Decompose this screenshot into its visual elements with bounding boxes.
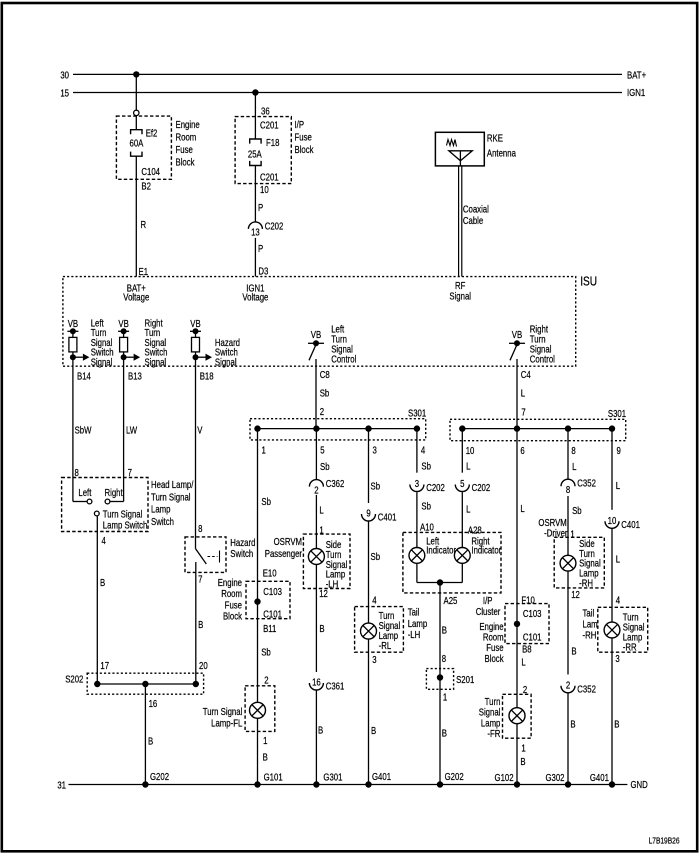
wire B from S202 pin 16 to ground G202: [144, 684, 146, 785]
svg-text:-RL: -RL: [379, 640, 392, 651]
I/P Fuse Block box (F18): [235, 117, 291, 184]
svg-text:R: R: [141, 219, 147, 230]
svg-text:8: 8: [442, 653, 446, 664]
svg-text:7: 7: [128, 467, 132, 478]
svg-text:VB: VB: [118, 318, 128, 329]
Turn Signal Lamp-RR box in Tail Lamp-RH: [598, 607, 648, 652]
svg-text:8: 8: [571, 445, 575, 456]
svg-text:25A: 25A: [248, 148, 262, 159]
svg-text:B11: B11: [263, 623, 276, 634]
antenna RF squiggle symbol: [447, 140, 457, 147]
svg-text:C202: C202: [426, 482, 445, 493]
splice S202 bus wire: [97, 683, 196, 685]
svg-text:C202: C202: [472, 482, 491, 493]
svg-text:L: L: [572, 461, 576, 472]
wire from line 30 to fuse block terminal: [135, 74, 137, 110]
svg-text:2: 2: [314, 484, 318, 495]
junction at S301 pin 5: [313, 425, 319, 431]
common contact of turn signal lamp switch: [94, 511, 99, 516]
svg-text:G301: G301: [323, 771, 342, 782]
svg-text:B: B: [263, 752, 268, 763]
svg-text:I/P: I/P: [295, 119, 305, 130]
svg-text:Sb: Sb: [371, 551, 381, 562]
svg-text:3: 3: [615, 653, 619, 664]
wire P from fuse block to connector C202: [254, 166, 256, 222]
svg-text:G102: G102: [495, 772, 514, 783]
svg-text:4: 4: [421, 445, 425, 456]
connector C202 pin 3: [410, 485, 424, 492]
svg-text:GND: GND: [631, 779, 649, 790]
svg-text:B: B: [442, 727, 447, 738]
svg-text:10: 10: [260, 184, 269, 195]
svg-text:4: 4: [102, 535, 106, 546]
svg-text:Sb: Sb: [371, 480, 381, 491]
wire LW from ISU pin B13 to headlamp switch pin 7: [123, 357, 125, 501]
svg-text:L: L: [616, 480, 620, 491]
svg-text:B: B: [148, 736, 153, 747]
wire B from lamp pin 1 to ground G102: [516, 724, 518, 785]
svg-text:B: B: [198, 619, 203, 630]
svg-text:Tail: Tail: [583, 608, 595, 619]
svg-text:ISU: ISU: [580, 274, 597, 288]
wire L from S301 pin 6 to I/P fuse block pin F10: [516, 429, 518, 624]
lamp Right Indicator: [454, 548, 470, 564]
svg-text:-FR: -FR: [487, 728, 500, 739]
junction at S301 pin 6: [514, 425, 520, 431]
svg-text:Left: Left: [78, 487, 91, 498]
svg-text:L: L: [466, 461, 470, 472]
svg-text:10: 10: [466, 445, 475, 456]
svg-text:7: 7: [198, 573, 202, 584]
svg-text:C401: C401: [378, 512, 397, 523]
svg-text:-RH: -RH: [583, 630, 597, 641]
svg-text:Cable: Cable: [463, 215, 483, 226]
svg-text:B14: B14: [77, 371, 91, 382]
svg-text:15: 15: [60, 88, 69, 99]
svg-text:Engine: Engine: [479, 621, 503, 632]
wire L from ISU pin C4 to splice S301 pin 7: [516, 359, 518, 429]
connector C401 pin 10: [605, 521, 619, 528]
wire B from OSRVM pin 12 to connector C361: [315, 565, 317, 673]
svg-text:C101: C101: [263, 609, 282, 620]
wire B from cluster pin A25 to splice S201 pin 8: [439, 583, 441, 678]
wire Sb from S301 pin 4 to connector C202: [416, 429, 418, 473]
svg-text:L: L: [520, 503, 524, 514]
svg-text:RKE: RKE: [487, 132, 503, 143]
svg-text:Signal: Signal: [91, 357, 113, 368]
svg-text:P: P: [258, 202, 263, 213]
lamp Turn Signal Lamp-FR: [509, 708, 525, 724]
svg-text:Switch: Switch: [230, 548, 253, 559]
svg-text:C101: C101: [523, 632, 542, 643]
svg-text:VB: VB: [68, 318, 78, 329]
svg-text:C362: C362: [326, 478, 345, 489]
svg-text:A28: A28: [468, 525, 482, 536]
lamp Turn Signal Lamp-RR: [604, 622, 620, 638]
junction at S301 pin 4: [414, 425, 420, 431]
svg-text:Lamp Switch: Lamp Switch: [103, 520, 148, 531]
svg-text:Signal: Signal: [215, 357, 237, 368]
svg-text:F18: F18: [266, 137, 279, 148]
svg-text:-RH: -RH: [579, 578, 593, 589]
bus line 30 BAT+: [73, 73, 622, 75]
svg-text:Signal: Signal: [145, 357, 167, 368]
svg-text:BAT+: BAT+: [627, 69, 646, 80]
svg-text:8: 8: [75, 467, 79, 478]
wire SbW from ISU pin B14 to headlamp switch pin 8: [72, 357, 74, 501]
svg-text:V: V: [197, 425, 202, 436]
wire from line 15 into I/P Fuse Block: [254, 93, 256, 140]
svg-text:OSRVM: OSRVM: [274, 536, 302, 547]
svg-text:Lamp: Lamp: [408, 618, 427, 629]
svg-text:Tail: Tail: [408, 607, 420, 618]
svg-text:2: 2: [320, 406, 324, 417]
svg-text:L: L: [466, 504, 470, 515]
svg-text:I/P: I/P: [483, 595, 493, 606]
svg-text:Block: Block: [223, 611, 242, 622]
svg-text:Signal: Signal: [479, 707, 501, 718]
OSRVM Passenger side turn signal lamp box: [303, 534, 350, 588]
svg-text:B: B: [100, 577, 105, 588]
connector C352 pin 2: [561, 686, 575, 693]
left contact of turn signal lamp switch: [73, 501, 87, 503]
svg-text:C201: C201: [260, 120, 279, 131]
fuse F18 25A: [250, 139, 261, 166]
svg-text:20: 20: [199, 660, 208, 671]
svg-text:13: 13: [251, 227, 260, 238]
ISU pull-up sensing unit for Right Turn Signal Switch Signal: [118, 318, 140, 361]
svg-text:17: 17: [100, 660, 109, 671]
svg-text:31: 31: [57, 779, 66, 790]
junction inside fuse block right: [514, 621, 520, 627]
svg-text:LW: LW: [126, 425, 138, 436]
wire L from S301 pin 8 to connector C352: [567, 429, 569, 480]
svg-text:-Driver: -Driver: [544, 528, 567, 539]
svg-text:3: 3: [372, 654, 376, 665]
svg-text:Lamp-FL: Lamp-FL: [211, 717, 242, 728]
wire L from C401 to lamp pin 4: [611, 528, 613, 622]
splice S202 box: [87, 673, 203, 694]
svg-text:SbW: SbW: [75, 425, 92, 436]
svg-text:Fuse: Fuse: [486, 642, 503, 653]
svg-text:C104: C104: [141, 166, 160, 177]
svg-text:L: L: [521, 388, 525, 399]
connector C401 pin 9: [362, 514, 376, 521]
svg-text:Antenna: Antenna: [487, 147, 516, 158]
wire L from C202 to cluster pin A28: [461, 492, 463, 547]
svg-text:P: P: [258, 243, 263, 254]
right contact of turn signal lamp switch: [111, 501, 124, 503]
lamp Side Turn Signal Lamp-LH: [308, 549, 324, 565]
wire L from fuse block pin B8 to lamp pin 2: [516, 624, 518, 708]
svg-text:OSRVM: OSRVM: [538, 517, 566, 528]
svg-text:C103: C103: [263, 586, 282, 597]
junction S202 pin 16: [142, 681, 148, 687]
svg-text:B: B: [442, 625, 447, 636]
svg-text:VB: VB: [311, 329, 321, 340]
wire B from hazard switch pin 7 to splice S202 pin 20: [195, 562, 197, 684]
wire from Left Indicator to junction: [416, 563, 418, 582]
svg-text:8: 8: [198, 523, 202, 534]
svg-text:IGN1: IGN1: [627, 87, 645, 98]
svg-text:Cluster: Cluster: [476, 606, 501, 617]
svg-text:L: L: [319, 505, 323, 516]
svg-text:S301: S301: [408, 407, 426, 418]
svg-text:Room: Room: [176, 131, 197, 142]
lamp Turn Signal Lamp-FL: [250, 702, 266, 718]
I/P Cluster box with indicators: [403, 532, 501, 593]
connector C202 pin 13: [248, 222, 262, 229]
antenna triangle symbol: [449, 151, 473, 166]
svg-text:60A: 60A: [130, 137, 144, 148]
svg-text:Switch: Switch: [151, 516, 174, 527]
ISU output switch for Right Turn Signal Control: [509, 329, 525, 360]
svg-text:3: 3: [415, 478, 419, 489]
svg-text:L7B19B26: L7B19B26: [649, 836, 680, 846]
splice S301 right box: [450, 419, 626, 440]
wire Sb from S301 pin 5 to connector C362: [315, 429, 317, 480]
node on line 15 at F18 feed: [252, 89, 258, 95]
svg-text:G202: G202: [150, 771, 169, 782]
wire B from OSRVM pin 12 to connector C352 pin 2: [567, 571, 569, 674]
svg-text:Voltage: Voltage: [242, 291, 268, 302]
svg-text:Block: Block: [176, 156, 195, 167]
wire L from S301 pin 9 to connector C401: [611, 429, 613, 510]
lamp Side Turn Signal Lamp-RH: [560, 555, 576, 571]
svg-text:E10: E10: [263, 568, 277, 579]
svg-text:B: B: [319, 623, 324, 634]
wire B from C352 to ground G302: [567, 693, 569, 785]
svg-text:Engine: Engine: [176, 119, 200, 130]
wire L from C362 to OSRVM pin 1: [315, 495, 317, 549]
svg-text:C401: C401: [621, 519, 640, 530]
wire B from S201 pin 1 to ground G202: [439, 678, 441, 785]
ISU output switch for Left Turn Signal Control: [308, 329, 324, 360]
wire Sb from C202 to cluster pin A10: [416, 492, 418, 547]
svg-text:2: 2: [264, 674, 268, 685]
svg-text:G101: G101: [264, 771, 283, 782]
svg-text:G302: G302: [545, 772, 564, 783]
hazard switch blade: [196, 549, 207, 564]
splice S301 left bus wire: [258, 428, 417, 430]
svg-text:Fuse: Fuse: [176, 144, 193, 155]
svg-text:C201: C201: [260, 172, 279, 183]
svg-text:Head Lamp/: Head Lamp/: [151, 479, 194, 490]
splice S301 left box: [250, 419, 426, 440]
junction at S301 pin 3: [365, 425, 371, 431]
wire Sb from S301 pin 3 to connector C401: [368, 429, 370, 503]
svg-text:6: 6: [520, 445, 524, 456]
svg-text:Turn Signal: Turn Signal: [203, 706, 243, 717]
svg-text:3: 3: [373, 445, 377, 456]
svg-text:36: 36: [261, 105, 270, 116]
Hazard Switch box: [185, 537, 226, 573]
svg-text:Right: Right: [105, 487, 124, 498]
Head Lamp/Turn Signal Lamp Switch box: [62, 478, 148, 532]
lamp Left Indicator: [409, 548, 425, 564]
wire Sb from C352 to OSRVM driver pin 1: [567, 496, 569, 555]
bus line 15 IGN1: [73, 92, 622, 94]
connector C352 pin 8: [561, 479, 575, 486]
svg-text:C352: C352: [577, 683, 596, 694]
Engine Room Fuse Block box (Ef2): [116, 116, 171, 179]
svg-text:Engine: Engine: [218, 577, 242, 588]
svg-text:Fuse: Fuse: [295, 131, 312, 142]
junction of indicator returns: [437, 579, 443, 585]
Engine Room Fuse Block pass-through box (C103/C101) right: [505, 604, 549, 644]
connector C362 pin 2: [309, 480, 323, 487]
svg-text:30: 30: [60, 70, 69, 81]
wire L from S301 pin 10 to connector C202: [461, 429, 463, 473]
junction inside fuse block: [254, 598, 260, 604]
svg-text:B: B: [318, 725, 323, 736]
svg-text:Indicator: Indicator: [426, 545, 456, 556]
wire P from C202 to ISU pin D3: [254, 238, 256, 277]
svg-text:12: 12: [319, 588, 328, 599]
svg-text:Sb: Sb: [572, 505, 582, 516]
svg-text:Room: Room: [483, 632, 504, 643]
svg-text:5: 5: [460, 478, 464, 489]
svg-text:A10: A10: [420, 522, 434, 533]
Turn Signal Lamp-RL box in Tail Lamp-LH: [355, 607, 404, 653]
svg-text:C202: C202: [265, 220, 284, 231]
wire Sb from ISU pin C8 to splice S301 pin 2: [315, 359, 317, 429]
svg-text:1: 1: [262, 445, 266, 456]
svg-text:A25: A25: [444, 595, 458, 606]
svg-text:D3: D3: [258, 265, 268, 276]
svg-text:C361: C361: [326, 681, 345, 692]
svg-text:Turn Signal: Turn Signal: [103, 509, 143, 520]
svg-text:Room: Room: [221, 588, 242, 599]
wire V from ISU pin B18 to hazard switch pin 8: [195, 357, 197, 548]
svg-text:Voltage: Voltage: [123, 291, 149, 302]
svg-text:16: 16: [149, 698, 158, 709]
svg-text:S202: S202: [65, 673, 83, 684]
svg-text:VB: VB: [190, 318, 200, 329]
svg-text:-LH: -LH: [408, 629, 421, 640]
svg-text:B: B: [570, 719, 575, 730]
svg-text:Signal: Signal: [449, 290, 471, 301]
svg-text:Lam: Lam: [583, 619, 598, 630]
splice S301 right bus wire: [462, 428, 612, 430]
wire B from switch pin 4 to splice S202 pin 17: [96, 516, 98, 684]
junction at S301 pin 8: [565, 425, 571, 431]
svg-text:Sb: Sb: [421, 500, 431, 511]
junction S202 pin 20: [193, 681, 199, 687]
connector C202 pin 5: [455, 485, 469, 492]
wire B from C361 to ground G301: [315, 690, 317, 785]
svg-text:Indicator: Indicator: [471, 545, 501, 556]
svg-text:L: L: [521, 657, 525, 668]
svg-text:B: B: [614, 719, 619, 730]
svg-text:Fuse: Fuse: [225, 599, 242, 610]
svg-text:-RR: -RR: [623, 641, 637, 652]
RKE Antenna box: [435, 132, 484, 166]
junction S202 pin 17: [94, 681, 100, 687]
svg-text:9: 9: [617, 445, 621, 456]
fuse Ef2 60A: [131, 130, 142, 157]
svg-text:G202: G202: [445, 771, 464, 782]
Engine Room Fuse Block pass-through box (C103/C101): [246, 581, 290, 618]
connector C361 pin 16: [309, 683, 323, 690]
svg-text:16: 16: [312, 677, 321, 688]
svg-text:1: 1: [570, 529, 574, 540]
svg-text:L: L: [616, 554, 620, 565]
svg-text:Passenger: Passenger: [265, 548, 302, 559]
svg-text:Control: Control: [331, 354, 356, 365]
svg-text:Lamp: Lamp: [481, 717, 500, 728]
lamp Turn Signal Lamp-RL: [361, 623, 377, 639]
wire from Right Indicator to junction: [461, 563, 463, 582]
ISU module box: [63, 277, 576, 367]
svg-text:Sb: Sb: [421, 460, 431, 471]
splice S201 box: [426, 669, 453, 690]
wire B from lamp pin 1 to ground G101: [257, 718, 259, 784]
svg-text:C352: C352: [577, 478, 596, 489]
svg-text:1: 1: [263, 735, 267, 746]
wire into fuse Ef2: [135, 116, 137, 130]
wire Sb from S301 pin 1 to Engine Room Fuse Block pin E10: [257, 429, 259, 602]
junction at S301 pin 1: [254, 425, 260, 431]
svg-text:Block: Block: [485, 653, 504, 664]
wire B from lamp pin 3 to ground G401: [368, 639, 370, 784]
svg-text:B: B: [571, 646, 576, 657]
svg-text:Turn Signal: Turn Signal: [151, 491, 191, 502]
svg-text:4: 4: [372, 595, 376, 606]
ISU pull-up sensing unit for Left Turn Signal Switch Signal: [67, 318, 89, 361]
wire B from lamp pin 3 to ground G401: [611, 638, 613, 785]
svg-text:1: 1: [443, 692, 447, 703]
ground bus line 31 GND: [69, 784, 628, 786]
svg-text:B8: B8: [522, 644, 532, 655]
svg-text:9: 9: [366, 508, 370, 519]
svg-text:B13: B13: [128, 371, 142, 382]
svg-text:C4: C4: [521, 369, 531, 380]
svg-text:B2: B2: [141, 180, 151, 191]
svg-text:B: B: [520, 756, 525, 767]
junction at S301 pin 10: [459, 425, 465, 431]
svg-text:Sb: Sb: [261, 496, 271, 507]
svg-text:2: 2: [523, 684, 527, 695]
coaxial cable double wire to ISU RF Signal: [458, 166, 460, 277]
svg-text:10: 10: [608, 515, 617, 526]
svg-text:12: 12: [571, 589, 580, 600]
svg-text:5: 5: [320, 445, 324, 456]
Turn Signal Lamp-FR box: [503, 694, 532, 738]
svg-text:7: 7: [521, 407, 525, 418]
svg-text:2: 2: [566, 679, 570, 690]
svg-text:4: 4: [616, 595, 620, 606]
OSRVM Driver side turn signal lamp box: [554, 537, 604, 588]
svg-text:G401: G401: [590, 772, 609, 783]
junction S201: [437, 674, 443, 680]
svg-text:Control: Control: [530, 354, 555, 365]
wire R from fuse Ef2 to ISU pin E1: [135, 156, 137, 276]
svg-text:8: 8: [566, 484, 570, 495]
svg-text:Ef2: Ef2: [146, 127, 158, 138]
terminal circle at Engine Room Fuse Block input: [134, 110, 139, 115]
svg-text:S201: S201: [456, 674, 474, 685]
svg-text:Turn: Turn: [485, 696, 501, 707]
svg-text:B: B: [371, 725, 376, 736]
junction at S301 pin 9: [609, 425, 615, 431]
wire Sb from C401 to lamp pin 4: [368, 521, 370, 623]
svg-text:B18: B18: [200, 371, 214, 382]
node on line 30 at Ef2 feed: [133, 71, 139, 77]
Turn Signal Lamp-FL box: [245, 686, 275, 732]
svg-text:G401: G401: [372, 771, 391, 782]
svg-text:Sb: Sb: [320, 461, 330, 472]
